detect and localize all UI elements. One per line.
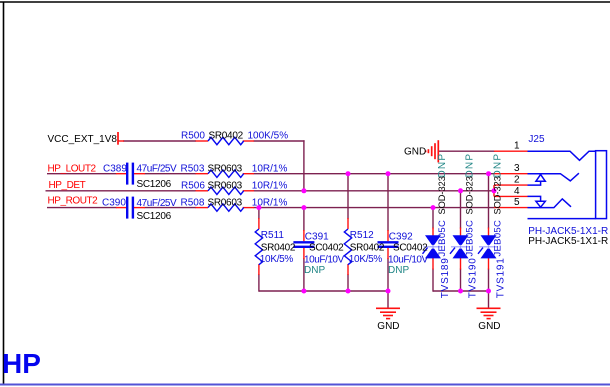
resistor R500 pin right [243,140,254,142]
svg-text:SR0402: SR0402 [350,242,385,253]
svg-text:HP_ROUT2: HP_ROUT2 [48,196,99,207]
svg-text:10R/1%: 10R/1% [252,198,288,209]
wire R512 column upper [347,174,349,219]
capacitor C391 plates [293,242,314,247]
capacitor C392 plates [378,242,399,247]
resistor R503 pin left [196,173,209,175]
svg-text:1: 1 [514,141,520,152]
wire R511 column lower [258,274,260,292]
resistor R512 pin top [347,218,349,229]
svg-text:JEB05C: JEB05C [492,220,503,257]
junction dot C391 top on HP_ROUT2 [301,205,306,210]
svg-text:TVS190: TVS190 [468,257,479,298]
svg-text:GND: GND [404,147,426,158]
wire GND to jack pin1 [439,150,495,152]
resistor R503 pin right [243,173,254,175]
svg-text:4: 4 [514,186,520,197]
svg-text:SC0402: SC0402 [393,243,428,254]
sheet border left [3,2,5,385]
svg-text:DNP: DNP [493,153,504,178]
svg-text:R506: R506 [181,181,205,192]
svg-text:HP: HP [2,348,41,379]
junction dot jack pin2-4 jog [492,188,497,193]
jack bottom line [528,218,596,220]
jack pin1 lead [494,150,528,152]
wire TVS191 column lower [488,269,490,292]
wire C392 column upper [387,174,389,231]
wire C392 column lower [387,258,389,291]
wire HP_LOUT2 C389 to R503 [145,173,197,175]
junction dot bus C391 [301,289,306,294]
svg-text:DNP: DNP [437,153,448,178]
TVS189 pin bottom [432,258,434,270]
wire middle GND bus [259,290,388,292]
svg-text:DNP: DNP [465,153,476,178]
wire TVS189 column upper [432,208,434,229]
wire R512 column lower [347,274,349,291]
svg-text:SOD-323: SOD-323 [465,176,475,214]
svg-text:C390: C390 [102,198,126,209]
title HP [2,348,41,379]
svg-text:R500: R500 [181,131,205,142]
ground symbol middle bottom [376,308,400,318]
svg-text:100K/5%: 100K/5% [248,131,289,142]
jack pin2 lead [494,184,528,186]
junction dot R511 top [256,205,261,210]
wire middle GND stem [387,291,389,308]
svg-text:SOD-323: SOD-323 [437,176,447,214]
junction dot bus TVS191 GND stem [486,289,491,294]
resistor R511 pin bottom [258,264,260,275]
svg-text:C392: C392 [389,231,413,242]
TVS189 pin top [432,228,434,237]
jack pin2 switch arrow up [528,181,541,185]
ground symbol top right (rotated) [426,140,439,162]
TVS191 pin top [488,228,490,237]
svg-text:VCC_EXT_1V8: VCC_EXT_1V8 [48,134,118,145]
ground symbol right bottom [477,308,501,318]
svg-text:2: 2 [514,175,520,186]
svg-text:3: 3 [514,163,520,174]
jack pin2-pin4 jog vertical [493,185,495,196]
svg-text:PH-JACK5-1X1-R: PH-JACK5-1X1-R [528,236,608,247]
resistor R508 pin right [243,207,254,209]
svg-text:SC1206: SC1206 [137,211,172,222]
resistor R512 body [344,229,351,265]
junction dot bus TVS190 [458,289,463,294]
svg-text:TVS189: TVS189 [440,257,451,298]
wire HP_DET R506 to jack junction [254,190,495,192]
jack barrel rectangle [596,151,607,219]
wire TVS GND stem [488,291,490,308]
TVS191 pin bottom [488,258,490,270]
jack pin4 lead [494,195,528,197]
svg-text:47uF/25V: 47uF/25V [137,164,178,175]
wire R511 column upper [258,208,260,219]
TVS190 pin bottom [460,258,462,270]
wire TVS GND bus [433,290,489,292]
capacitor C392 pin bottom [387,248,389,259]
svg-text:47uF/25V: 47uF/25V [137,198,178,209]
svg-text:SR0603: SR0603 [208,163,243,174]
svg-text:R508: R508 [181,198,205,209]
TVS190 bidirectional diode symbol [450,235,470,258]
svg-text:SR0402: SR0402 [209,131,244,142]
svg-text:R503: R503 [181,163,205,174]
jack pin3 lead [494,173,528,175]
wire HP_ROUT2 R508 to jack pin5 [254,207,495,209]
wire HP_ROUT2 port to C390 [47,207,117,209]
resistor R503 body [208,170,244,177]
svg-text:DNP: DNP [388,265,409,276]
svg-text:SC0402: SC0402 [309,243,344,254]
VCC_EXT_1V8 port tick [117,132,119,145]
TVS189 bidirectional diode symbol [423,235,443,258]
capacitor C390 pin right [134,207,145,209]
wire C391 column lower [303,258,305,291]
svg-text:C389: C389 [103,164,127,175]
svg-text:10K/5%: 10K/5% [260,254,294,265]
wire C391 column upper [303,208,305,231]
jack pin5 ring contact [528,199,572,208]
jack pin4 switch arrow down [528,196,541,201]
capacitor C389 pin right [134,173,145,175]
capacitor C390 pin left [116,207,126,209]
svg-text:SR0402: SR0402 [261,242,296,253]
capacitor C391 pin bottom [303,248,305,259]
resistor R506 pin left [196,190,209,192]
junction dot TVS190 top on HP_DET [458,188,463,193]
capacitor C390 plates [127,197,133,219]
svg-text:JEB05C: JEB05C [437,220,448,257]
resistor R506 body [208,187,244,194]
wire VCC_EXT_1V8 after R500 [254,140,305,142]
jack pin1 sleeve contact [528,151,596,160]
svg-text:R512: R512 [350,230,374,241]
wire TVS190 column upper [460,191,462,229]
junction dot bus C392 GND stem [386,289,391,294]
wire TVS190 column lower [460,269,462,292]
capacitor C391 pin top [303,230,305,241]
capacitor C389 pin left [116,173,126,175]
junction dot bus R512 [346,289,351,294]
capacitor C392 pin top [387,230,389,241]
junction dot C392 top on HP_LOUT2 [386,171,391,176]
junction dot TVS191 top on HP_LOUT2 [486,171,491,176]
svg-text:10R/1%: 10R/1% [252,181,288,192]
svg-text:HP_DET: HP_DET [49,180,86,191]
junction dot VCC column on HP_DET [301,188,306,193]
junction dot R512 top on HP_LOUT2 [346,171,351,176]
jack pin3 tip contact [528,173,579,181]
svg-text:C391: C391 [305,231,329,242]
svg-text:10R/1%: 10R/1% [252,163,288,174]
resistor R500 body [208,137,244,144]
sheet border top [0,1,610,3]
capacitor C389 plates [127,163,133,185]
svg-text:JEB05C: JEB05C [464,220,475,257]
wire HP_ROUT2 C390 to R508 [145,207,197,209]
connector J25 jack symbol [528,151,607,219]
wire TVS189 column lower [432,269,434,292]
svg-text:SR0603: SR0603 [208,181,243,192]
resistor R512 pin bottom [347,264,349,275]
svg-text:R511: R511 [261,230,285,241]
wire VCC_EXT_1V8 horizontal [123,140,196,142]
resistor R511 body [255,229,262,265]
jack pin5 lead [494,207,528,209]
VCC_EXT_1V8 port stub [118,140,124,142]
svg-text:HP_LOUT2: HP_LOUT2 [48,163,97,174]
resistor R506 pin right [243,190,254,192]
TVS191 bidirectional diode symbol [478,235,498,258]
svg-text:SC1206: SC1206 [137,179,172,190]
svg-text:SR0603: SR0603 [208,198,243,209]
resistor R511 pin top [258,218,260,229]
svg-text:GND: GND [478,321,500,332]
wire TVS191 column upper [488,174,490,229]
svg-text:TVS191: TVS191 [496,257,507,298]
svg-text:DNP: DNP [304,265,325,276]
resistor R508 pin left [196,207,209,209]
svg-text:5: 5 [514,197,520,208]
resistor R500 pin left [196,140,209,142]
wire HP_DET port to R506 [46,190,197,192]
svg-text:GND: GND [377,321,399,332]
resistor R508 body [208,204,244,211]
wire HP_LOUT2 R503 to jack pin3 [254,173,495,175]
wire VCC pulldown vertical to HP_DET [303,140,305,191]
sheet bottom blue line [0,384,610,386]
TVS190 pin top [460,228,462,237]
svg-text:J25: J25 [528,134,545,145]
wire HP_LOUT2 port to C389 [47,173,117,175]
svg-text:10K/5%: 10K/5% [349,254,383,265]
junction dot TVS189 top on HP_ROUT2 [431,205,436,210]
svg-text:SOD-323: SOD-323 [493,176,503,214]
